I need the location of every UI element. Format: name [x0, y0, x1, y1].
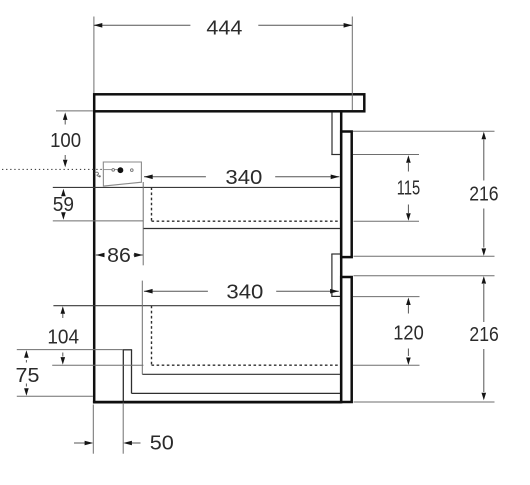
dim 444	[94, 16, 353, 39]
right extension lines	[353, 130, 495, 132]
plinth leg	[123, 350, 132, 402]
svg-text:340: 340	[226, 280, 263, 303]
svg-text:216: 216	[469, 183, 498, 206]
dim 340 upper	[144, 166, 339, 189]
upper drawer solid bottom	[143, 228, 340, 230]
dim 50 extension lines	[92, 405, 94, 454]
upper drawer top edge	[53, 186, 340, 188]
dim 86	[96, 244, 143, 267]
svg-text:104: 104	[47, 326, 79, 349]
dim 75	[16, 350, 40, 395]
middle front rail	[331, 254, 340, 296]
svg-text:444: 444	[206, 16, 242, 39]
dim 444 extension lines	[93, 17, 95, 94]
svg-text:115: 115	[397, 177, 420, 200]
carcass bottom panel outer edge	[93, 401, 342, 404]
dim 216 upper	[469, 132, 498, 256]
dim 50	[74, 432, 174, 455]
lower drawer solid bottom	[142, 373, 340, 375]
svg-text:75: 75	[16, 364, 40, 387]
dim 100	[50, 112, 81, 167]
carcass left side panel	[93, 111, 96, 402]
svg-text:340: 340	[225, 166, 262, 189]
dim 115	[397, 155, 420, 221]
drawer slide bracket	[95, 162, 142, 186]
lower drawer front panel	[341, 277, 352, 402]
svg-text:120: 120	[393, 322, 424, 345]
upper drawer back extension line	[142, 182, 144, 265]
centerline dotted	[2, 168, 103, 170]
svg-text:50: 50	[150, 432, 174, 455]
svg-text:100: 100	[50, 129, 81, 152]
dim 59	[53, 189, 74, 220]
carcass bottom panel inner line	[132, 392, 341, 394]
dim 100 extension	[56, 110, 93, 112]
top front rail	[331, 112, 340, 154]
lower drawer top edge	[53, 305, 340, 307]
dim 75 extensions	[17, 349, 123, 351]
svg-text:216: 216	[469, 323, 498, 346]
dim 340 lower	[144, 280, 339, 303]
countertop slab	[94, 94, 364, 111]
dim 59 bottom extension	[53, 220, 144, 222]
dim 120	[393, 298, 424, 366]
dim 104	[47, 306, 79, 364]
dim 104 bottom extension	[52, 364, 143, 366]
lower drawer dashed bottom panel	[152, 306, 341, 366]
dim 216 lower	[469, 276, 498, 400]
lower drawer back extension line	[141, 281, 143, 375]
upper drawer front panel	[341, 132, 352, 258]
carcass front vertical edge	[340, 110, 343, 403]
upper drawer dashed bottom panel	[152, 187, 341, 221]
svg-text:86: 86	[107, 244, 131, 267]
svg-text:59: 59	[53, 193, 74, 216]
